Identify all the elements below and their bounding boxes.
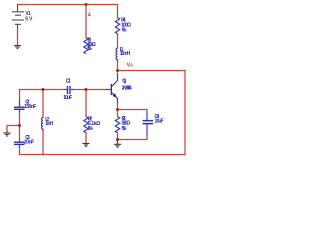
svg-text:10uF: 10uF [155,119,164,125]
svg-text:5 V: 5 V [25,17,33,23]
svg-text:5%: 5% [122,27,127,33]
svg-text:10uF: 10uF [63,95,72,101]
svg-text:4: 4 [88,13,91,19]
svg-text:20nF: 20nF [24,140,34,146]
svg-text:Q1: Q1 [122,79,126,85]
svg-text:10mH: 10mH [120,51,131,57]
svg-text:5%: 5% [87,46,92,52]
svg-text:2N3904: 2N3904 [122,85,132,91]
svg-text:150nF: 150nF [24,104,36,110]
svg-text:C1: C1 [66,79,71,85]
svg-text:5%: 5% [122,126,127,132]
svg-text:Vc: Vc [127,62,133,68]
svg-text:1mH: 1mH [45,121,53,127]
svg-text:5%: 5% [88,126,93,132]
